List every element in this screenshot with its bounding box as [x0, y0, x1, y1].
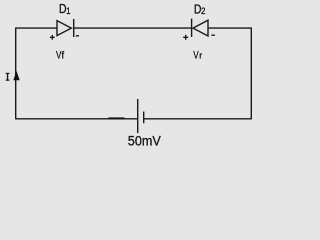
diode D2 [192, 19, 208, 37]
wire top-left segment [15, 27, 57, 29]
battery B1 long plate (positive) [137, 99, 139, 133]
svg-text:1: 1 [66, 6, 71, 17]
diode D1 [57, 19, 74, 37]
current arrow I head [13, 71, 19, 80]
svg-text:50mV: 50mV [128, 133, 162, 149]
battery B1 short plate (negative) [143, 112, 145, 124]
D2 plus sign [183, 35, 188, 40]
wire D1 to D2 [74, 27, 192, 29]
svg-text:f: f [62, 50, 65, 62]
wire bottom-right segment [144, 118, 252, 120]
D1 minus sign [76, 35, 79, 37]
wire left vertical [15, 28, 17, 119]
wire bottom-left segment [15, 118, 138, 120]
label I [6, 73, 10, 80]
battery negative terminal mark [108, 117, 124, 119]
D1 plus sign [50, 35, 55, 40]
svg-text:r: r [199, 50, 202, 60]
wire right vertical [250, 28, 252, 119]
D2 minus sign [211, 34, 215, 36]
wire D2 to right corner [208, 27, 252, 29]
svg-text:2: 2 [201, 6, 206, 17]
